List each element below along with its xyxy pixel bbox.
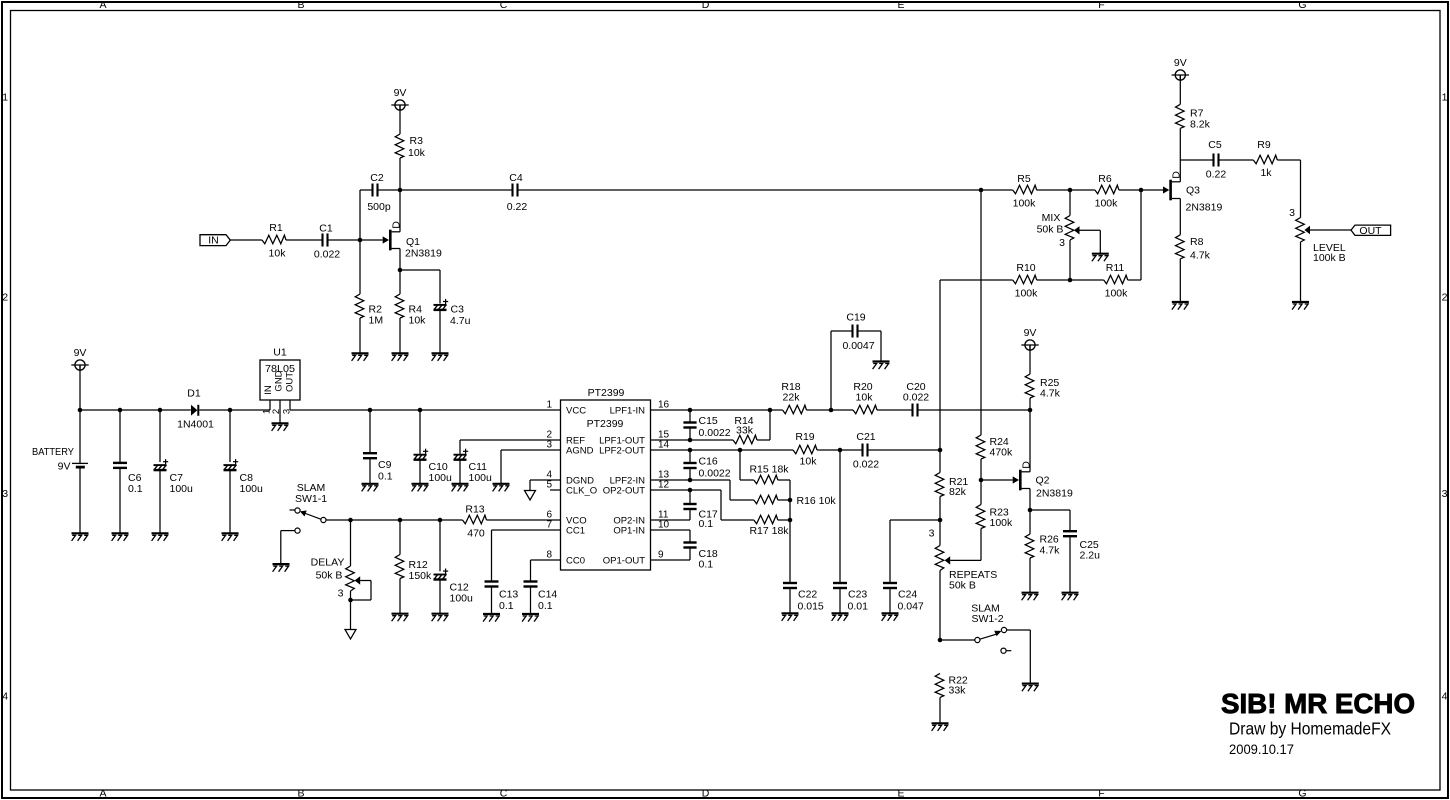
wire C23 to ground [839,588,841,613]
wire R10 feed vertical [939,280,941,450]
ground [432,353,449,361]
svg-text:100u: 100u [240,483,264,495]
svg-text:VCC: VCC [566,406,586,417]
wire R23 top [980,480,982,505]
wire pin5 CLK_O stub [550,489,560,491]
wire R19 to C21 [817,449,863,451]
junction mix bus left [979,188,984,193]
ground [882,613,899,621]
svg-text:10k: 10k [800,456,818,468]
junction C19 node [829,408,834,413]
svg-text:R13: R13 [465,504,484,516]
wire R21 to C24 node [939,497,941,521]
svg-text:OUT: OUT [1359,225,1382,237]
wire R2 to ground [359,318,361,353]
ground [72,533,89,541]
svg-text:0.0022: 0.0022 [699,427,731,439]
capacitor C9 [363,453,393,482]
resistor R20 [853,381,877,414]
svg-text:0.1: 0.1 [699,518,714,530]
svg-text:Q1: Q1 [406,236,420,248]
junction MIX bottom node [1068,278,1073,283]
junction C24 branch node [938,518,943,523]
junction C9 node [368,408,373,413]
junction R17 right [788,518,793,523]
svg-text:Q3: Q3 [1186,185,1200,197]
capacitor C19 [842,312,874,353]
ground [412,484,429,492]
junction R12 node [398,518,403,523]
svg-text:CC0: CC0 [566,556,585,567]
svg-text:100k: 100k [1015,288,1039,300]
capacitor C16 [683,456,730,480]
ground [1022,684,1039,692]
svg-text:C: C [500,788,508,800]
title text [1221,688,1415,757]
resistor R1 [262,222,286,260]
wire pin10 OP1-IN to C18 [651,530,691,542]
svg-text:3: 3 [1289,207,1295,219]
wire C15 bottom [689,428,691,440]
capacitor C1 [314,223,340,261]
resistor R12 [395,555,432,583]
wire C9 to ground [369,458,371,483]
svg-text:1k: 1k [1260,167,1272,179]
svg-text:9V: 9V [58,461,71,473]
wire MIX bottom to R11 [1070,279,1104,281]
wire pin13 jog to R16 [730,480,754,500]
svg-text:22k: 22k [783,392,801,404]
svg-text:100u: 100u [450,593,474,605]
wire R9 to LEVEL [1277,160,1300,218]
wire C12 top [439,520,441,571]
svg-text:IN: IN [208,235,219,247]
capacitor C23 [833,583,868,612]
wire C20 to R25 node [918,409,1031,411]
ground [1022,593,1039,601]
ground [832,613,849,621]
svg-text:DELAY: DELAY [311,557,345,569]
svg-text:0.1: 0.1 [378,471,393,483]
wire pin3 AGND to ground [501,450,560,483]
junction R16 right [788,498,793,503]
capacitor C4 [507,172,528,213]
wire D1 to U1 [199,409,270,411]
svg-text:9V: 9V [74,347,87,359]
svg-text:2009.10.17: 2009.10.17 [1229,742,1294,757]
wire C6 to ground [119,469,121,533]
svg-text:50k B: 50k B [1037,224,1064,236]
svg-text:OP2-OUT: OP2-OUT [603,486,645,497]
resistor R2 [355,294,383,327]
svg-text:C9: C9 [378,459,392,471]
svg-text:1N4001: 1N4001 [177,419,214,431]
ground [782,613,799,621]
svg-text:5: 5 [546,480,552,491]
resistor R4 [395,294,426,327]
junction Q1 drain node [398,188,403,193]
svg-text:0.1: 0.1 [128,483,143,495]
svg-text:500p: 500p [367,201,391,213]
svg-text:R10: R10 [1016,262,1035,274]
ground [222,533,239,541]
wire SW1-2 to ground [1007,630,1031,683]
wire C10 top [419,410,421,454]
svg-text:PT2399: PT2399 [587,418,624,430]
potentiometer DELAY [311,520,371,600]
wire R13 to pin6 VCO [487,519,561,521]
wire C7 to ground [159,471,161,533]
svg-text:C22: C22 [798,588,817,600]
wire dry feed vertical [980,190,982,435]
wire C19 to ground [858,331,882,361]
9V power symbol [71,347,88,370]
svg-text:0.047: 0.047 [898,600,924,612]
wire battery to ground [79,469,81,533]
svg-text:G: G [1298,0,1306,11]
svg-text:SW1-2: SW1-2 [971,613,1003,625]
resistor R25 [1025,374,1060,400]
junction DELAY node [348,518,353,523]
switch SW1-1 [290,482,328,533]
resistor R7 [1176,104,1211,130]
ground [392,353,409,361]
wire R11 to Q3 gate node [1128,190,1141,280]
wire R10 feed [940,279,1013,281]
svg-text:100k B: 100k B [1313,252,1346,264]
wire R25 bottom [1029,398,1031,410]
svg-text:MIX: MIX [1042,212,1061,224]
svg-text:B: B [297,0,304,11]
junction C21 left [838,448,843,453]
wire C8 top [229,410,231,462]
ground [493,484,510,492]
wire C17 to pin11 [689,509,691,520]
svg-text:D: D [702,788,710,800]
wire Q2 drain [1029,410,1031,472]
9V power symbol [391,87,408,110]
svg-text:4.7k: 4.7k [1040,388,1061,400]
wire C23 branch [839,450,841,583]
svg-text:SW1-1: SW1-1 [295,493,327,505]
svg-text:9: 9 [658,550,664,561]
wire 9V to R3 [399,105,401,134]
junction MIX top node [1068,188,1073,193]
capacitor C15 [683,415,730,439]
svg-text:C21: C21 [856,431,875,443]
svg-text:C23: C23 [848,588,867,600]
capacitor C20 [903,381,929,417]
svg-text:33k: 33k [736,425,754,437]
svg-text:9V: 9V [394,87,407,99]
wire R23 to REPEATS wiper [950,529,981,561]
wire Q1 drain [399,190,401,232]
wire R8 to ground [1179,259,1181,302]
svg-text:2.2u: 2.2u [1080,550,1101,562]
ground [1092,254,1109,262]
switch SW1-2 [940,603,1011,654]
wire C19 node to R20 [831,409,853,411]
wire 9V to R7 [1179,75,1181,104]
svg-text:3: 3 [546,440,552,451]
wire pin14 LPF2-OUT [651,449,794,451]
junction SW1-2 node [938,638,943,643]
signal ground [345,630,356,640]
svg-text:A: A [99,788,106,800]
capacitor C24 [883,583,924,612]
svg-text:C2: C2 [370,172,384,184]
wire pin4 DGND [530,480,560,491]
wire R4 to ground [399,318,401,353]
wire Q1 source [399,249,401,271]
wire R7 to Q3 drain node [1179,128,1181,160]
svg-text:4.7u: 4.7u [450,315,471,327]
svg-text:R15 18k: R15 18k [749,464,789,476]
wire R16 right [778,499,790,501]
wire C22 branch [789,520,791,583]
svg-text:4.7k: 4.7k [1040,545,1061,557]
resistor R23 [976,505,1013,530]
wire R17 right [778,519,790,521]
svg-text:GND: GND [274,370,285,391]
svg-text:AGND: AGND [566,446,594,457]
resistor R26 [1025,534,1060,559]
svg-text:2: 2 [2,291,8,303]
resistor R9 [1253,139,1277,179]
ground [273,564,290,572]
potentiometer REPEATS [929,520,998,640]
svg-text:100k: 100k [1095,198,1119,210]
resistor R19 [793,431,817,468]
wire C3 to ground [439,311,441,353]
resistor R11 [1104,262,1128,300]
svg-text:R3: R3 [410,135,424,147]
svg-text:Draw by HomemadeFX: Draw by HomemadeFX [1229,719,1391,739]
svg-text:16: 16 [658,400,670,411]
junction Q2 gate node [979,478,984,483]
wire R3 to drain node [399,158,401,190]
wire R24 to Q2 gate node [980,459,982,480]
wire R12 top [399,520,401,555]
svg-text:LPF1-IN: LPF1-IN [610,406,646,417]
wire C5 to R9 [1219,159,1254,161]
svg-text:A: A [99,0,106,11]
svg-text:G: G [1298,788,1306,800]
capacitor C21 [853,431,879,471]
wire C10 to ground [419,460,421,483]
svg-text:470k: 470k [990,447,1014,459]
wire pin12 jog to R17 [721,490,754,520]
svg-text:1: 1 [2,91,8,103]
capacitor C6 [113,463,143,495]
wire battery rail [80,409,191,411]
svg-text:C3: C3 [451,304,465,316]
svg-text:D: D [702,0,710,11]
svg-text:C15: C15 [699,415,718,427]
9V power symbol [1021,327,1038,350]
svg-text:0.0022: 0.0022 [699,468,731,480]
junction C8 node [228,408,233,413]
svg-text:9V: 9V [1174,57,1187,69]
wire C9 top [369,410,371,453]
svg-text:0.22: 0.22 [507,201,528,213]
svg-text:OUT: OUT [285,372,296,392]
wire drain node to C5 [1180,159,1213,161]
svg-text:C24: C24 [898,588,917,600]
wire C12 to ground [439,580,441,613]
resistor R18 [781,381,806,414]
junction feedback node [938,448,943,453]
wire C17 top lead [689,490,691,504]
wire R15 right [778,479,790,481]
svg-text:C1: C1 [319,223,333,235]
svg-text:R16 10k: R16 10k [797,495,837,507]
junction Q2 source node [1028,508,1033,513]
svg-text:10k: 10k [856,392,874,404]
junction R14 right top [768,408,773,413]
svg-text:12: 12 [658,480,670,491]
wire Q3 drain [1179,160,1181,182]
svg-text:CLK_O: CLK_O [566,486,597,497]
svg-text:OP1-OUT: OP1-OUT [603,556,645,567]
junction R15 branch [738,448,743,453]
svg-text:3: 3 [1059,237,1065,249]
wire C2 to drain node [378,189,401,191]
wire feedback node down [939,450,941,473]
junction C16 top [688,448,693,453]
ground [152,533,169,541]
svg-text:1: 1 [1442,91,1448,103]
svg-text:4: 4 [1442,691,1448,703]
wire R20 to C20 [877,409,913,411]
resistor R3 [395,134,425,159]
ground [392,614,409,622]
wire pin11 OP2-IN [651,519,691,521]
svg-text:10k: 10k [408,147,426,159]
ground [362,484,379,492]
svg-text:3: 3 [1442,488,1448,500]
svg-text:1M: 1M [369,315,384,327]
svg-text:100u: 100u [429,472,453,484]
resistor R16 [754,495,778,504]
wire R12 to ground [399,579,401,614]
svg-text:R19: R19 [795,431,814,443]
ground [112,533,129,541]
capacitor C18 [683,543,718,571]
svg-text:R5: R5 [1017,173,1031,185]
junction Q3 gate node [1139,188,1144,193]
capacitor C22 [783,583,824,612]
svg-text:C4: C4 [509,172,523,184]
wire pin12 OP2-OUT [651,489,722,491]
resistor R10 [1013,262,1038,300]
connector OUT [1351,225,1391,237]
svg-text:C5: C5 [1208,139,1222,151]
junction C16 bottom [688,478,693,483]
junction C7 node [158,408,163,413]
capacitor C5 [1206,139,1227,181]
svg-text:R11: R11 [1106,262,1125,274]
svg-text:100k: 100k [990,517,1014,529]
ground [522,614,539,622]
wire C15 top [689,410,691,422]
svg-text:10k: 10k [269,248,287,260]
svg-text:8.2k: 8.2k [1190,119,1211,131]
svg-text:0.1: 0.1 [699,559,714,571]
svg-text:8: 8 [546,550,552,561]
junction Q1 gate node [358,238,363,243]
wire Q2 source to C25 [1030,510,1070,531]
capacitor C13 [485,582,519,613]
ground [272,423,289,431]
svg-text:50k B: 50k B [316,570,343,582]
wire MIX wiper to ground [1099,230,1101,253]
svg-text:0.022: 0.022 [903,392,929,404]
wire MIX node to R6 [1070,189,1095,191]
resistor R24 [976,435,1013,459]
svg-text:100u: 100u [170,483,194,495]
svg-text:C13: C13 [499,589,518,601]
svg-text:F: F [1098,788,1104,800]
capacitor C25 [1063,531,1100,561]
resistor R17 [749,515,789,537]
capacitor C10 [414,449,453,484]
wire 9V to battery [79,365,81,463]
svg-text:R6: R6 [1098,173,1112,185]
wire C25 to ground [1069,536,1071,592]
svg-text:2N3819: 2N3819 [1036,488,1073,500]
resistor R14 [733,415,757,444]
svg-text:0.0047: 0.0047 [842,340,874,352]
diode D1 [177,388,214,431]
ground [873,362,890,370]
svg-text:33k: 33k [949,685,967,697]
wire Q3 gate lead [1141,189,1163,191]
resistor R21 [935,473,968,499]
svg-text:50k B: 50k B [949,580,976,592]
svg-text:100k: 100k [1105,288,1129,300]
wire C14 to ground [530,587,532,614]
wire C13 to ground [491,587,493,614]
battery BT1 [32,446,88,473]
wire C16 bottom lead [689,468,691,480]
svg-text:R1: R1 [269,222,283,234]
svg-text:CC1: CC1 [566,526,585,537]
svg-text:BATTERY: BATTERY [32,446,74,458]
wire R26 to ground [1029,558,1031,592]
junction C15 bottom [688,438,693,443]
svg-text:U1: U1 [273,347,287,359]
transistor Q3 [1163,171,1222,214]
capacitor C12 [434,569,474,605]
ground [1062,593,1079,601]
svg-text:10: 10 [658,520,670,531]
svg-text:R17 18k: R17 18k [749,525,789,537]
svg-text:C: C [500,0,508,11]
wire mix bus to R5 [981,189,1013,191]
wire pin15 LPF1-OUT [651,439,734,441]
svg-text:2: 2 [1442,291,1448,303]
wire pin16 LPF1-IN [651,409,771,411]
wire 5V rail [290,409,560,411]
wire 9V to R25 [1029,345,1031,374]
ground [1172,302,1189,310]
potentiometer MIX [1037,190,1101,280]
ground [452,484,469,492]
wire R14 to pin16 net [757,410,770,440]
wire drain node to C4 [400,189,513,191]
wire C8 to ground [229,471,231,533]
